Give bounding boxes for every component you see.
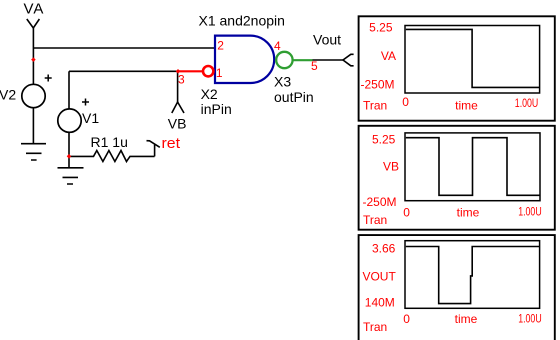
svg-text:VB: VB [168, 116, 187, 132]
svg-text:VB: VB [383, 160, 399, 174]
svg-text:0: 0 [402, 95, 409, 109]
svg-text:V1: V1 [82, 110, 99, 126]
svg-text:0: 0 [403, 312, 410, 326]
svg-text:inPin: inPin [201, 101, 232, 117]
svg-text:Vout: Vout [313, 31, 341, 47]
svg-text:VOUT: VOUT [362, 269, 396, 283]
svg-text:1.00U: 1.00U [515, 96, 539, 110]
svg-text:time: time [455, 312, 478, 326]
svg-text:VA: VA [24, 0, 45, 17]
svg-text:3: 3 [178, 72, 185, 86]
svg-text:Tran: Tran [363, 213, 387, 227]
svg-text:R1 1u: R1 1u [91, 134, 128, 150]
svg-text:Tran: Tran [363, 99, 387, 113]
svg-text:140M: 140M [365, 296, 395, 310]
svg-text:5: 5 [311, 59, 318, 73]
svg-text:V2: V2 [0, 86, 16, 102]
svg-text:0: 0 [403, 206, 410, 220]
svg-text:outPin: outPin [274, 89, 314, 105]
svg-text:Tran: Tran [363, 320, 387, 334]
svg-text:time: time [457, 206, 480, 220]
svg-text:2: 2 [217, 38, 224, 52]
svg-text:ret: ret [162, 135, 181, 152]
svg-text:time: time [455, 99, 478, 113]
svg-text:-250M: -250M [362, 195, 396, 209]
svg-text:5.25: 5.25 [372, 133, 396, 147]
svg-text:1.00U: 1.00U [518, 205, 542, 219]
svg-text:3.66: 3.66 [372, 241, 396, 255]
svg-text:X3: X3 [274, 74, 291, 90]
svg-text:X1 and2nopin: X1 and2nopin [199, 13, 285, 29]
svg-text:4: 4 [274, 39, 281, 53]
svg-text:5.25: 5.25 [369, 21, 393, 35]
svg-text:VA: VA [381, 49, 396, 63]
svg-text:-250M: -250M [360, 77, 394, 91]
svg-text:X2: X2 [201, 86, 218, 102]
svg-text:1.00U: 1.00U [518, 311, 542, 325]
svg-text:1: 1 [216, 66, 223, 80]
